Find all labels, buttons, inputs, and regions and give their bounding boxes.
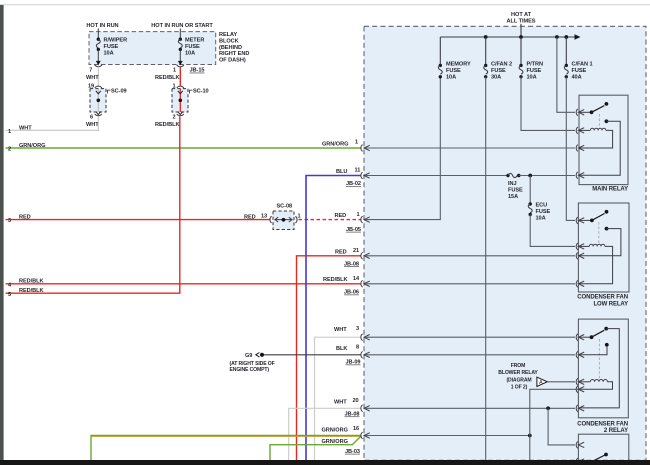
fuse MEMORY 10A xyxy=(438,37,471,80)
relay block box xyxy=(89,32,216,65)
FAN2 T3 connector xyxy=(576,378,584,385)
connector RED JB-08 into box xyxy=(361,252,370,259)
svg-text:JB-08: JB-08 xyxy=(345,412,360,418)
svg-text:WHT: WHT xyxy=(334,327,347,333)
svg-text:10A: 10A xyxy=(446,74,456,80)
wire ECU to LOW RELAY T2 xyxy=(530,215,575,247)
MAIN T1 connector xyxy=(576,109,591,116)
wire RED dashed SC-08 to box xyxy=(299,212,362,233)
svg-text:BLU: BLU xyxy=(336,169,347,175)
svg-text:RED/BLK: RED/BLK xyxy=(19,279,44,285)
wire BLU to INJ fuse xyxy=(365,175,508,177)
svg-text:JB-09: JB-09 xyxy=(346,360,361,366)
svg-text:FUSE: FUSE xyxy=(446,68,461,74)
svg-text:JB-02: JB-02 xyxy=(346,181,361,187)
svg-text:JB-05: JB-05 xyxy=(346,227,361,233)
svg-text:RED: RED xyxy=(244,215,256,221)
svg-text:BLOCK: BLOCK xyxy=(219,38,239,44)
MAIN contact2 to T4 xyxy=(580,119,621,175)
svg-text:10A: 10A xyxy=(536,216,546,222)
fuse INJ 15A xyxy=(506,173,575,200)
svg-text:JB-03: JB-03 xyxy=(345,449,360,455)
ground G9 xyxy=(230,353,275,374)
wire feed METER xyxy=(179,29,181,40)
wire C/FAN1 to LOW RELAY T1 xyxy=(566,77,575,221)
svg-text:ENGINE COMPT): ENGINE COMPT) xyxy=(230,367,270,373)
svg-text:8: 8 xyxy=(356,344,359,350)
svg-text:FUSE: FUSE xyxy=(185,44,200,50)
svg-text:1: 1 xyxy=(298,214,301,220)
wire to LOW RELAY T3 xyxy=(365,255,575,257)
MAIN T2 connector xyxy=(576,127,584,134)
svg-text:RED: RED xyxy=(335,249,347,255)
svg-text:2: 2 xyxy=(8,147,11,153)
svg-text:40A: 40A xyxy=(572,74,582,80)
wire P/TRN to MAIN RELAY T2 xyxy=(521,77,575,131)
svg-text:CONDENSER FAN: CONDENSER FAN xyxy=(577,295,628,301)
svg-text:1: 1 xyxy=(8,129,11,135)
svg-text:RED/BLK: RED/BLK xyxy=(155,122,180,128)
svg-text:3: 3 xyxy=(356,326,359,332)
fuse ECU 10A xyxy=(528,176,550,222)
FAN2 T4 connector xyxy=(576,386,584,393)
relay CONDENSER FAN 2 RELAY box xyxy=(577,319,628,434)
splice SC-09 xyxy=(86,86,127,128)
svg-text:GRN/ORG: GRN/ORG xyxy=(19,143,45,149)
svg-text:1 OF 2): 1 OF 2) xyxy=(511,385,528,391)
svg-text:1: 1 xyxy=(355,139,358,145)
LOW T2 connector xyxy=(576,243,584,250)
svg-text:GRN/ORG: GRN/ORG xyxy=(322,141,348,147)
label HOT IN RUN xyxy=(86,23,118,29)
svg-text:RED/BLK: RED/BLK xyxy=(155,75,180,81)
MAIN T4 connector xyxy=(576,172,584,179)
svg-text:2: 2 xyxy=(173,115,176,121)
wire GRN/ORG circuit 2 xyxy=(6,139,361,152)
LOW coil xyxy=(580,244,613,284)
svg-text:HOT IN RUN: HOT IN RUN xyxy=(86,23,118,29)
svg-text:10A: 10A xyxy=(185,51,195,57)
wire to LOW RELAY T4 xyxy=(365,283,575,285)
svg-text:RED: RED xyxy=(335,213,347,219)
svg-text:FUSE: FUSE xyxy=(104,44,119,50)
svg-text:METER: METER xyxy=(185,38,204,44)
connector WHT 3 into box xyxy=(361,334,370,341)
svg-text:A: A xyxy=(539,380,543,386)
svg-text:SC-08: SC-08 xyxy=(277,203,293,209)
svg-text:BLK: BLK xyxy=(336,346,347,352)
splice SC-08 xyxy=(270,203,301,229)
svg-text:1: 1 xyxy=(173,68,176,74)
MAIN T3 connector xyxy=(576,145,584,152)
svg-text:LOW RELAY: LOW RELAY xyxy=(593,301,628,307)
svg-text:INJ: INJ xyxy=(508,181,517,187)
svg-text:21: 21 xyxy=(353,248,359,254)
svg-text:RELAY: RELAY xyxy=(219,32,238,38)
connector RED/BLK JB-06 into box xyxy=(361,280,370,287)
page border bottom bar xyxy=(0,460,650,465)
svg-text:RIGHT END: RIGHT END xyxy=(219,51,249,57)
relay4 T1 connector xyxy=(576,442,584,449)
wire GRN/ORG circuit 16 lower xyxy=(270,436,361,460)
fuse P/TRN 10A xyxy=(519,37,543,80)
FAN2 coil xyxy=(580,380,613,390)
svg-text:30A: 30A xyxy=(491,74,501,80)
splice SC-10 xyxy=(155,84,209,128)
svg-text:WHT: WHT xyxy=(86,75,99,81)
wire WHT circuit 3 top xyxy=(315,326,361,460)
big box fill (HOT AT ALL TIMES block) xyxy=(364,26,646,460)
arrow A from blower relay xyxy=(537,377,575,386)
FAN2 actuation dashed xyxy=(598,339,600,379)
svg-text:RED/BLK: RED/BLK xyxy=(323,277,348,283)
wire RED circuit 3 xyxy=(6,214,271,225)
page border top line xyxy=(0,4,650,5)
LOW switch xyxy=(590,210,608,222)
wire BLK circuit 8 xyxy=(264,344,361,365)
bus wire with arrow xyxy=(440,34,580,39)
svg-text:JB-08: JB-08 xyxy=(344,261,359,267)
svg-text:WHT: WHT xyxy=(86,122,99,128)
connector BLK JB-09 into box xyxy=(361,351,370,358)
label RELAY BLOCK (BEHIND RIGHT END OF DASH) xyxy=(219,32,249,64)
svg-text:HOT AT: HOT AT xyxy=(511,12,532,18)
svg-text:1: 1 xyxy=(357,212,360,218)
svg-text:JB-15: JB-15 xyxy=(190,68,205,74)
wire RED/BLK pin1 to SC-10 xyxy=(155,67,180,86)
svg-text:SC-09: SC-09 xyxy=(111,89,127,95)
svg-text:GRN/ORG: GRN/ORG xyxy=(322,439,348,445)
svg-text:FUSE: FUSE xyxy=(508,188,523,194)
FAN2 switch xyxy=(580,327,620,408)
connector GRN/ORG JB-03 into box xyxy=(361,432,370,439)
svg-text:C/FAN 1: C/FAN 1 xyxy=(572,61,593,67)
wire to FAN2 RELAY T1 xyxy=(365,336,575,338)
LOW T3 connector xyxy=(576,252,584,259)
wire to GRN/ORG junction xyxy=(365,434,532,460)
svg-text:11: 11 xyxy=(355,168,361,174)
fuse METER 10A xyxy=(178,38,204,62)
svg-text:15A: 15A xyxy=(508,194,518,200)
svg-text:WHT: WHT xyxy=(334,399,347,405)
relay 4 box (cut off) xyxy=(578,434,628,464)
connector pin 1 exit JB-15 xyxy=(173,61,205,74)
svg-text:P/TRN: P/TRN xyxy=(527,61,544,67)
svg-text:20: 20 xyxy=(353,398,359,404)
connector pin 7 exit xyxy=(89,61,102,74)
label HOT IN RUN OR START xyxy=(151,23,213,29)
svg-text:FUSE: FUSE xyxy=(572,68,587,74)
svg-text:HOT IN RUN OR START: HOT IN RUN OR START xyxy=(151,23,213,29)
svg-text:JB-06: JB-06 xyxy=(344,290,359,296)
svg-text:GRN/ORG: GRN/ORG xyxy=(322,427,348,433)
svg-text:6: 6 xyxy=(90,115,93,121)
MAIN switch xyxy=(590,102,609,114)
page border left bar xyxy=(0,5,4,460)
svg-text:16: 16 xyxy=(353,426,359,432)
svg-text:MEMORY: MEMORY xyxy=(446,61,471,67)
LOW actuation dashed xyxy=(598,222,600,245)
svg-text:CONDENSER FAN: CONDENSER FAN xyxy=(577,421,628,427)
svg-text:BLOWER RELAY: BLOWER RELAY xyxy=(498,370,538,376)
svg-text:G9: G9 xyxy=(245,353,252,359)
svg-text:2 RELAY: 2 RELAY xyxy=(604,428,628,434)
label FROM BLOWER RELAY xyxy=(498,363,538,391)
svg-text:MAIN RELAY: MAIN RELAY xyxy=(592,186,628,192)
FAN2 T5 connector xyxy=(576,405,584,412)
FAN2 T2 connector to contact2 xyxy=(576,343,609,358)
svg-text:14: 14 xyxy=(353,276,360,282)
svg-text:13: 13 xyxy=(261,214,267,220)
label HOT AT ALL TIMES xyxy=(507,12,536,24)
wire FAN2 T4 to GRN/ORG junction xyxy=(530,389,579,435)
LOW contact2 to T3 xyxy=(580,227,621,256)
wire RED circuit 21 xyxy=(297,248,361,460)
svg-text:(AT RIGHT SIDE OF: (AT RIGHT SIDE OF xyxy=(230,361,275,367)
wire C/FAN2 output down xyxy=(485,77,487,460)
MAIN coil xyxy=(580,128,613,148)
wire WHT pin7 to SC-09 xyxy=(86,67,99,90)
MAIN actuation dashed xyxy=(598,114,600,129)
wire hot feed xyxy=(520,24,522,37)
relay CONDENSER FAN LOW RELAY box xyxy=(577,203,629,307)
connector BLU JB-02 into box xyxy=(361,172,370,179)
wire to FAN2 RELAY T2 xyxy=(365,354,575,356)
relay4 switch partial xyxy=(576,453,608,465)
svg-text:SC-10: SC-10 xyxy=(193,89,209,95)
LOW T4 connector xyxy=(576,280,584,287)
fuse C/FAN 1 40A xyxy=(564,37,592,80)
svg-text:3: 3 xyxy=(8,218,11,224)
wire to MAIN RELAY T3 xyxy=(365,147,575,149)
svg-text:(DIAGRAM: (DIAGRAM xyxy=(506,378,531,384)
LOW T1 connector xyxy=(576,217,592,224)
svg-text:7: 7 xyxy=(89,68,92,74)
wire RED/BLK circuit 4 xyxy=(6,276,361,296)
svg-text:10A: 10A xyxy=(527,74,537,80)
wire feed R/WIPER xyxy=(97,29,99,40)
svg-text:C/FAN 2: C/FAN 2 xyxy=(491,61,512,67)
wire WHT circuit 1 xyxy=(6,117,99,136)
connector WHT JB-08 into box xyxy=(361,405,370,412)
FAN2 T1 connector xyxy=(576,334,591,341)
svg-text:FUSE: FUSE xyxy=(527,68,542,74)
relay MAIN RELAY box xyxy=(579,95,628,192)
svg-text:10A: 10A xyxy=(104,51,114,57)
fuse R/WIPER 10A xyxy=(96,38,127,62)
svg-text:FUSE: FUSE xyxy=(536,209,551,215)
svg-text:FUSE: FUSE xyxy=(491,68,506,74)
wire RED/BLK circuit 5 xyxy=(6,117,180,298)
wire GRN/ORG circuit 16 upper xyxy=(91,426,361,460)
wire WHT circuit 20 xyxy=(289,398,361,460)
svg-text:WHT: WHT xyxy=(19,125,32,131)
svg-text:5: 5 xyxy=(8,292,11,298)
svg-text:R/WIPER: R/WIPER xyxy=(104,38,128,44)
svg-text:RED: RED xyxy=(19,215,31,221)
svg-text:RED/BLK: RED/BLK xyxy=(19,288,44,294)
wire BLU circuit 11 xyxy=(306,168,361,460)
wire to FAN2 RELAY T5 with tee to relay4 xyxy=(365,406,575,445)
connector RED JB-05 into box xyxy=(361,216,370,223)
wire to MEMORY fuse xyxy=(365,77,440,220)
fuse C/FAN 2 30A xyxy=(484,37,512,80)
svg-text:ECU: ECU xyxy=(536,203,548,209)
svg-text:ALL TIMES: ALL TIMES xyxy=(507,18,536,24)
svg-text:(BEHIND: (BEHIND xyxy=(219,45,242,51)
wire MAIN T1 feed xyxy=(557,37,575,112)
svg-text:FROM: FROM xyxy=(511,363,526,369)
connector GRN/ORG into box xyxy=(361,145,370,152)
svg-text:OF DASH): OF DASH) xyxy=(219,58,246,64)
